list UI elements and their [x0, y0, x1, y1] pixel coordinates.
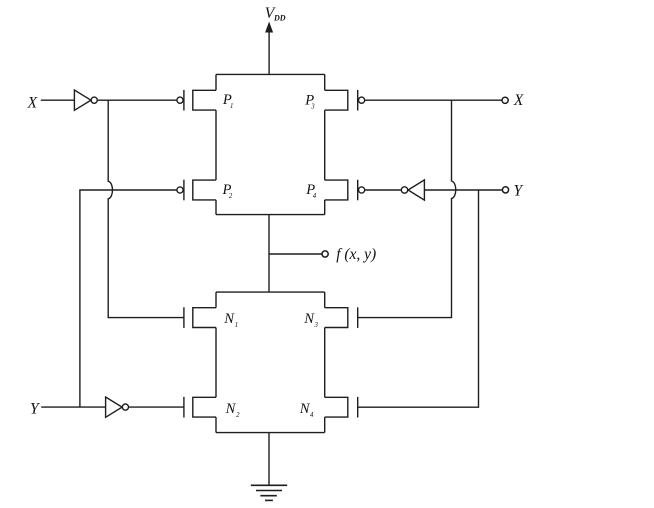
- wire PMOS output rail: [216, 214, 325, 216]
- wire P2 drain to output rail: [215, 200, 217, 215]
- wire VDD rail: [216, 73, 325, 75]
- wire N3 source to N4 drain: [324, 328, 326, 398]
- wire Xbar vertical: junction at U1 output down to N1 gate, hops over P2 gate wire: [108, 100, 184, 317]
- wire N1 source to N2 drain: [215, 328, 217, 398]
- svg-text:N: N: [299, 401, 311, 417]
- svg-text:2: 2: [236, 412, 240, 419]
- inverter U3 (Y to P4, points left): [401, 180, 424, 200]
- wire P3 source to VDD rail: [324, 74, 326, 90]
- svg-text:Y: Y: [30, 400, 40, 417]
- svg-text:N: N: [223, 311, 235, 327]
- label N1: [223, 311, 238, 329]
- wire N1 drain to rail: [215, 292, 217, 308]
- label N2: [225, 401, 241, 419]
- transistor P2: [177, 180, 216, 201]
- svg-text:1: 1: [230, 103, 233, 110]
- wire rail to ground symbol: [268, 433, 270, 486]
- wire P1 source to VDD rail: [215, 74, 217, 90]
- wire P3 gate to terminal X: [365, 99, 502, 101]
- svg-text:4: 4: [310, 412, 314, 419]
- svg-text:f (x, y): f (x, y): [336, 246, 376, 263]
- wire ground rail: [216, 432, 325, 434]
- wire P3 drain to P4 source: [324, 110, 326, 180]
- transistor P4: [325, 180, 365, 201]
- transistor N2: [184, 397, 216, 418]
- svg-text:1: 1: [235, 322, 238, 329]
- svg-text:3: 3: [310, 104, 315, 111]
- wire terminal Y to U3 input: [424, 189, 502, 191]
- wire N2 source to ground rail: [215, 417, 217, 433]
- wire X down to N3 gate, hops over Y wire: [358, 100, 456, 317]
- wire NMOS top rail: [216, 291, 325, 293]
- wire Y input to inverter U2: [41, 406, 105, 408]
- svg-text:Y: Y: [514, 182, 524, 199]
- label P3: [304, 92, 315, 110]
- inverter U2 (Y): [106, 397, 129, 417]
- inverter U1 (X): [74, 90, 97, 110]
- wire Y up to P2 gate: [80, 190, 177, 407]
- power VDD arrow: [265, 22, 273, 75]
- transistor N1: [184, 307, 216, 328]
- transistor N4: [325, 397, 358, 418]
- svg-text:3: 3: [314, 322, 319, 329]
- svg-text:N: N: [303, 311, 315, 327]
- terminal X: [502, 97, 508, 103]
- label P2: [222, 182, 233, 200]
- wire N3 drain to rail: [324, 292, 326, 308]
- label P1: [222, 92, 234, 110]
- wire X input to inverter U1: [41, 99, 75, 101]
- wire output node vertical: [268, 215, 270, 293]
- wire U2 output to N2 gate: [129, 406, 184, 408]
- terminal f(x,y): [322, 251, 328, 257]
- ground: [251, 485, 287, 500]
- svg-text:DD: DD: [273, 14, 286, 23]
- svg-text:X: X: [513, 92, 524, 109]
- terminal Y: [502, 187, 508, 193]
- transistor N3: [325, 307, 358, 328]
- label P4: [305, 182, 317, 200]
- wire N4 source to ground rail: [324, 417, 326, 433]
- wire P4 drain to output rail: [324, 200, 326, 215]
- label N4: [299, 401, 314, 419]
- wire Y down to N4 gate: [358, 190, 479, 407]
- wire U3 output to P4 gate: [365, 189, 402, 191]
- svg-text:N: N: [225, 401, 237, 417]
- svg-text:2: 2: [229, 193, 233, 200]
- net label VDD: [260, 5, 286, 26]
- transistor P3: [325, 90, 365, 111]
- svg-text:4: 4: [313, 193, 317, 200]
- wire U1 output to P1 gate: [97, 99, 177, 101]
- wire P1 drain to P2 source: [215, 110, 217, 180]
- wire output tap to terminal f: [269, 253, 322, 255]
- label N3: [303, 311, 318, 329]
- transistor P1: [177, 90, 216, 111]
- svg-text:X: X: [27, 94, 38, 111]
